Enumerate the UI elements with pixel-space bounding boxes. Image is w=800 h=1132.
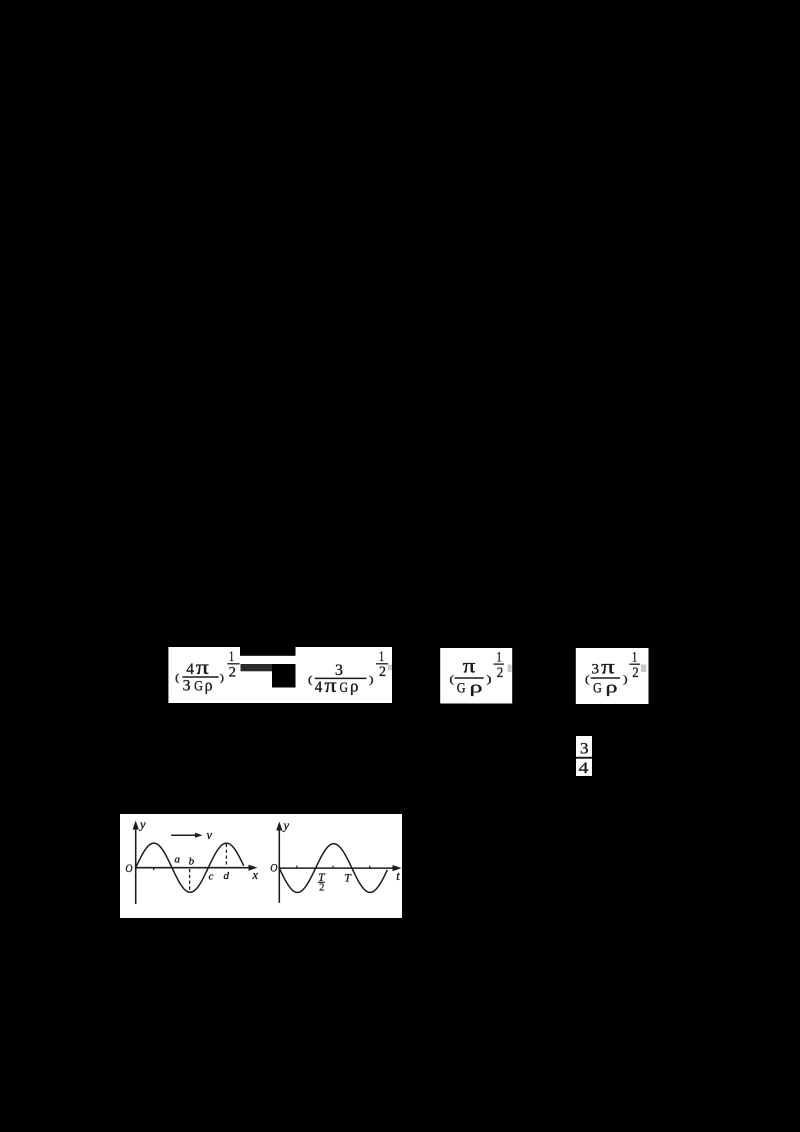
formula (3/4piGrho)^(1/2) bbox=[308, 649, 388, 697]
svg-text:2: 2 bbox=[379, 664, 386, 680]
left sine wave bbox=[136, 843, 244, 892]
svg-text:): ) bbox=[220, 673, 225, 684]
svg-text:4: 4 bbox=[186, 661, 194, 678]
white panel 3 bbox=[576, 648, 649, 704]
svg-text:G: G bbox=[340, 680, 349, 696]
svg-text:1: 1 bbox=[632, 650, 637, 666]
left y-axis bbox=[135, 825, 137, 904]
dashed drop line at d (crest) bbox=[225, 844, 227, 867]
svg-text:3: 3 bbox=[183, 677, 191, 694]
white panel 1 bbox=[168, 647, 392, 703]
svg-text:3: 3 bbox=[580, 740, 589, 757]
svg-text:3: 3 bbox=[592, 662, 600, 678]
svg-text:1: 1 bbox=[497, 650, 502, 666]
svg-text:π: π bbox=[601, 657, 615, 679]
svg-text:G: G bbox=[457, 681, 466, 697]
svg-text:): ) bbox=[487, 673, 492, 685]
svg-text:G: G bbox=[593, 681, 602, 697]
black redaction square bbox=[272, 664, 296, 688]
svg-text:2: 2 bbox=[319, 883, 324, 894]
svg-text:): ) bbox=[623, 673, 628, 685]
svg-text:G: G bbox=[194, 678, 203, 694]
svg-text:d: d bbox=[224, 870, 230, 882]
left x-axis bbox=[135, 867, 252, 869]
svg-text:2: 2 bbox=[229, 665, 236, 681]
dark gray redaction bar bbox=[241, 664, 273, 671]
svg-text:v: v bbox=[207, 828, 213, 842]
svg-text:2: 2 bbox=[497, 665, 504, 681]
formula (4pi/3Grho)^(1/2) bbox=[175, 649, 239, 694]
white panel 4: fraction 3/4 bbox=[576, 736, 593, 777]
svg-text:4: 4 bbox=[315, 679, 323, 696]
labels right diagram bbox=[270, 819, 400, 894]
ticks on right x-axis bbox=[296, 866, 298, 868]
labels left diagram bbox=[125, 818, 258, 883]
svg-text:4: 4 bbox=[579, 760, 589, 777]
light gray mark bbox=[388, 665, 392, 671]
white panel 5: wave diagrams bbox=[120, 814, 402, 918]
svg-text:): ) bbox=[369, 674, 374, 686]
velocity arrow bbox=[171, 834, 197, 836]
svg-text:O: O bbox=[270, 863, 278, 875]
right sine wave bbox=[279, 844, 387, 893]
tick on left x-axis bbox=[153, 868, 155, 871]
svg-text:2: 2 bbox=[632, 665, 639, 681]
svg-text:O: O bbox=[125, 863, 133, 875]
svg-text:π: π bbox=[463, 656, 476, 678]
right y-axis bbox=[278, 827, 280, 903]
svg-text:1: 1 bbox=[379, 649, 384, 665]
formula (3pi/Grho)^(1/2) bbox=[585, 650, 640, 697]
svg-text:ρ: ρ bbox=[350, 677, 359, 696]
svg-text:1: 1 bbox=[229, 649, 234, 665]
svg-text:ρ: ρ bbox=[205, 675, 213, 694]
svg-text:ρ: ρ bbox=[470, 678, 483, 697]
right x-axis bbox=[278, 867, 395, 869]
dashed drop line at b (trough) bbox=[189, 869, 191, 891]
svg-text:x: x bbox=[252, 868, 259, 882]
svg-text:b: b bbox=[189, 855, 195, 867]
svg-text:ρ: ρ bbox=[606, 678, 618, 697]
svg-text:y: y bbox=[138, 818, 146, 832]
svg-text:(: ( bbox=[450, 673, 455, 685]
svg-text:a: a bbox=[175, 854, 181, 866]
svg-text:π: π bbox=[325, 675, 337, 697]
formula (pi/Grho)^(1/2) bbox=[450, 650, 505, 697]
svg-text:t: t bbox=[396, 869, 400, 883]
svg-text:y: y bbox=[282, 819, 290, 833]
black cutout top bbox=[240, 647, 296, 656]
svg-text:(: ( bbox=[585, 673, 590, 685]
white panel 2 bbox=[440, 648, 512, 704]
svg-text:c: c bbox=[209, 871, 214, 883]
svg-text:(: ( bbox=[308, 674, 313, 686]
svg-text:(: ( bbox=[175, 673, 180, 684]
